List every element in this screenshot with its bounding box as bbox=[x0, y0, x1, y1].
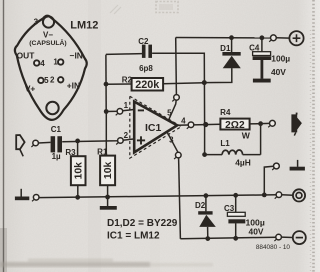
package pin dot 5 bbox=[38, 78, 43, 83]
pin circle V+ bbox=[271, 35, 277, 41]
wire pin5 riser to V+ rail bbox=[175, 38, 178, 95]
wire output row pin4 to R4 bbox=[177, 124, 220, 125]
wire pin5 stub bbox=[168, 100, 176, 121]
pin circle V- bbox=[276, 234, 282, 240]
wire R3 bottom lead bbox=[77, 185, 79, 197]
wire C3 bottom lead bbox=[235, 223, 237, 238]
capacitor C3 plates bbox=[228, 219, 245, 223]
svg-text:C4: C4 bbox=[249, 43, 260, 52]
wire R2 right lead bbox=[163, 83, 204, 84]
wire L1 right lead bbox=[243, 154, 261, 156]
svg-text:40V: 40V bbox=[271, 67, 286, 77]
svg-text:V−: V− bbox=[43, 30, 53, 39]
wire C3 top lead bbox=[235, 195, 237, 212]
ground input bar bbox=[15, 197, 29, 201]
right dotted scan band bbox=[312, 0, 315, 272]
svg-text:−IN: −IN bbox=[70, 51, 83, 61]
svg-text:D1,D2 = BY229: D1,D2 = BY229 bbox=[107, 218, 178, 229]
svg-text:5: 5 bbox=[167, 108, 172, 117]
op-amp IC1 triangle bbox=[134, 102, 177, 153]
svg-text:L1: L1 bbox=[220, 139, 230, 148]
svg-text:3: 3 bbox=[34, 18, 39, 27]
svg-text:4: 4 bbox=[40, 59, 45, 68]
package top mounting hole bbox=[43, 16, 54, 27]
ground right tick bbox=[297, 160, 299, 167]
wire C4 bottom lead bbox=[260, 60, 263, 79]
wire ground row bottom-left to output terminal row bbox=[39, 195, 278, 198]
wire C4 top lead bbox=[261, 38, 263, 52]
wire R4 to L1 vertical bbox=[260, 124, 262, 155]
svg-text:1: 1 bbox=[53, 58, 58, 67]
wire D2 top lead bbox=[205, 196, 207, 212]
package pin dot 4 bbox=[34, 60, 39, 65]
wire R2 left lead bbox=[106, 83, 132, 85]
svg-text:R4: R4 bbox=[220, 108, 231, 117]
pin circle input bbox=[33, 140, 39, 146]
pin circle input ground bbox=[33, 195, 39, 201]
wire feedback to D1 anode bbox=[204, 68, 232, 83]
wire L1 left lead bbox=[205, 154, 223, 156]
svg-text:6p8: 6p8 bbox=[139, 64, 153, 73]
svg-text:R2: R2 bbox=[122, 75, 133, 84]
svg-text:1µ: 1µ bbox=[52, 152, 61, 161]
faint vertical scan streaks bbox=[88, 0, 101, 272]
wire to speaker terminal bbox=[282, 194, 293, 197]
wire to + terminal bbox=[276, 37, 289, 39]
package pin dot 1 bbox=[58, 59, 63, 64]
svg-text:220k: 220k bbox=[135, 79, 160, 91]
package pin dot 2 bbox=[58, 77, 63, 82]
svg-text:1: 1 bbox=[124, 101, 129, 110]
faint scan artifact box top middle bbox=[156, 2, 178, 13]
svg-text:D2: D2 bbox=[195, 201, 206, 210]
ground right bar bbox=[290, 167, 305, 171]
pin circle 5 bbox=[174, 95, 180, 101]
wire R3 top lead bbox=[77, 141, 79, 156]
svg-text:884080 - 10: 884080 - 10 bbox=[256, 244, 291, 251]
package bottom mounting hole bbox=[46, 102, 58, 114]
wire V+ top rail bbox=[176, 37, 271, 39]
pin circle speaker bbox=[276, 192, 282, 198]
svg-text:C3: C3 bbox=[224, 204, 235, 213]
resistor R1 box bbox=[100, 156, 115, 186]
op-amp plus sign bbox=[137, 139, 145, 141]
svg-text:IC1 = LM12: IC1 = LM12 bbox=[107, 231, 160, 242]
svg-text:2: 2 bbox=[50, 76, 55, 85]
resistor R4 box bbox=[220, 119, 249, 130]
op-amp minus sign bbox=[138, 109, 144, 111]
svg-text:40V: 40V bbox=[249, 227, 264, 237]
pin circle 3 bbox=[176, 152, 182, 158]
svg-text:R3: R3 bbox=[65, 148, 76, 157]
svg-text:3: 3 bbox=[169, 135, 174, 144]
diode D2 bbox=[198, 211, 212, 214]
svg-text:2Ω2: 2Ω2 bbox=[225, 120, 245, 131]
pin circle 2 bbox=[118, 138, 124, 144]
ground C4 bar bbox=[253, 79, 271, 83]
svg-text:V+: V+ bbox=[25, 83, 36, 93]
capacitor C4 plates bbox=[253, 56, 272, 60]
svg-text:IC1: IC1 bbox=[145, 122, 162, 134]
svg-text:C1: C1 bbox=[51, 125, 62, 134]
capacitor C1 plates bbox=[51, 136, 56, 152]
capacitor C3 top plate (hollow) bbox=[227, 212, 245, 216]
wire input row C1 to pin 2 bbox=[38, 141, 50, 144]
svg-text:OUT: OUT bbox=[17, 51, 36, 61]
capacitor C2 plates bbox=[142, 45, 146, 58]
output arrow symbol bbox=[291, 114, 302, 132]
terminal speaker output bbox=[293, 189, 305, 201]
bottom smear bbox=[0, 259, 213, 268]
terminal + supply bbox=[289, 31, 303, 45]
svg-text:D1: D1 bbox=[220, 44, 231, 53]
resistor R3 box bbox=[71, 156, 86, 185]
terminal - supply bbox=[293, 231, 306, 244]
resistor R2 box bbox=[132, 78, 164, 91]
wire feedback node vertical bbox=[105, 55, 107, 112]
svg-text:4µH: 4µH bbox=[235, 157, 251, 167]
wire D2 bottom lead bbox=[207, 227, 209, 239]
svg-text:W: W bbox=[242, 131, 251, 141]
svg-text:R1: R1 bbox=[97, 147, 108, 156]
capacitor C4 top plate (hollow) bbox=[253, 52, 271, 56]
page edge line left bbox=[3, 0, 5, 272]
wire R1 top lead bbox=[105, 111, 107, 155]
wire C2 left bbox=[106, 53, 142, 56]
svg-text:10k: 10k bbox=[103, 162, 114, 180]
wire V- bottom row bbox=[180, 237, 276, 239]
svg-text:4: 4 bbox=[181, 117, 186, 126]
input arrow symbol bbox=[16, 135, 24, 149]
pin circle slashes bbox=[31, 145, 34, 147]
diode D1 bbox=[222, 52, 240, 56]
ground R1 lead bbox=[107, 185, 109, 206]
op-amp IC1 dashed outline bbox=[130, 96, 182, 158]
pin circle 4 bbox=[188, 122, 194, 128]
wire R4 right to arrow bbox=[250, 122, 270, 125]
svg-text:2: 2 bbox=[124, 131, 129, 140]
wire output to L1 vertical bbox=[204, 125, 206, 155]
wire D1 cathode to V+ rail bbox=[231, 38, 233, 53]
svg-text:LM12: LM12 bbox=[70, 20, 98, 32]
TO-3 package outline LM12 bbox=[15, 16, 87, 120]
svg-text:10k: 10k bbox=[73, 162, 84, 180]
pin circle output bbox=[270, 120, 276, 126]
wire to - terminal bbox=[281, 236, 292, 238]
ground input tick bbox=[20, 189, 22, 197]
junction dots bbox=[104, 82, 109, 87]
wire pin3 stub bbox=[167, 132, 178, 152]
wire C2 right to vertical bbox=[152, 53, 205, 124]
svg-text:100µ: 100µ bbox=[271, 54, 290, 64]
svg-text:+IN: +IN bbox=[67, 81, 80, 91]
ground R1 bar bbox=[100, 206, 117, 210]
pin circle ground stub bbox=[274, 163, 280, 169]
wire V- vertical bbox=[179, 158, 181, 239]
svg-text:(CAPSULĂ): (CAPSULĂ) bbox=[29, 38, 66, 47]
wire ground stub near output terminal bbox=[264, 166, 273, 195]
svg-text:C2: C2 bbox=[138, 37, 149, 46]
faint diagonal scribble top left bbox=[110, 5, 121, 14]
wire pin1 row bbox=[106, 109, 135, 111]
svg-text:5: 5 bbox=[44, 76, 49, 85]
pin circle 1 bbox=[117, 109, 123, 115]
inductor L1 coil bbox=[222, 150, 243, 155]
